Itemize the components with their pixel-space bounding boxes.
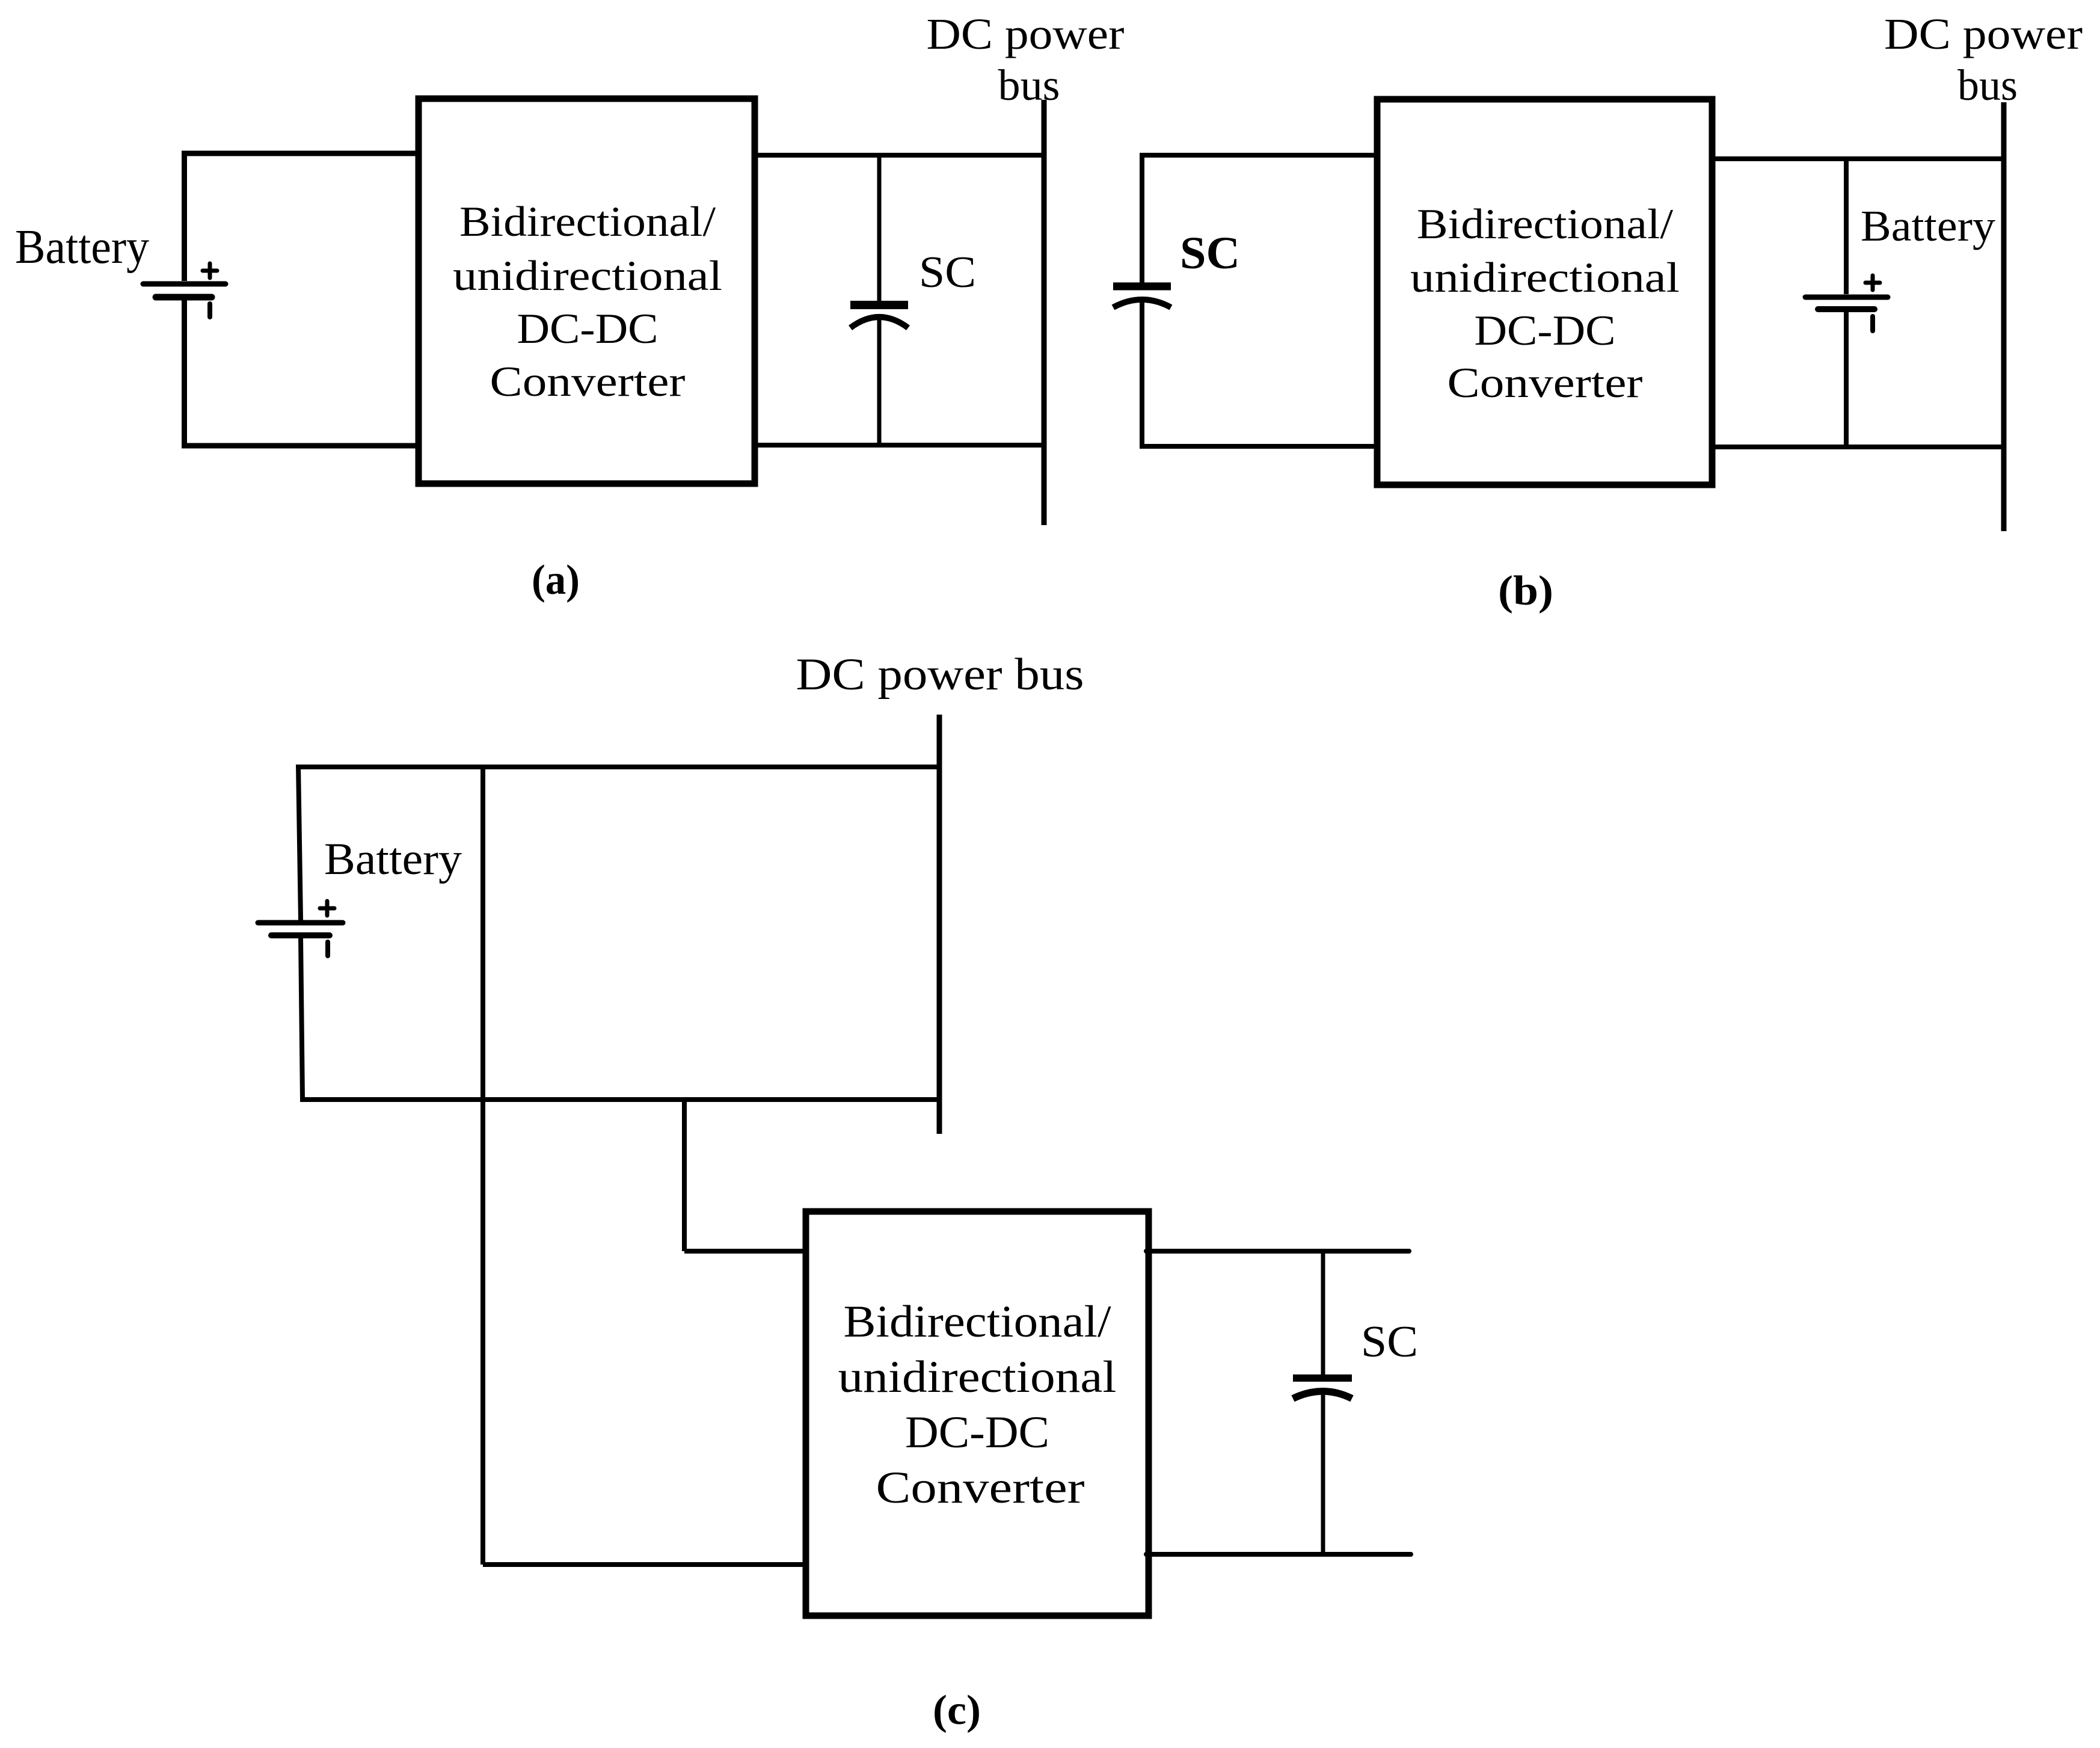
converter block U2: [1377, 99, 1712, 485]
battery B3 top lead: [298, 765, 301, 920]
svg-text:Bidirectional/: Bidirectional/: [459, 198, 716, 245]
battery B1 minus tick: [207, 304, 212, 317]
wire supercapacitor C2 bottom lead and bottom return: [1142, 303, 1378, 446]
svg-text:Bidirectional/: Bidirectional/: [844, 1297, 1111, 1347]
DC power bus line (b): [2001, 102, 2007, 531]
supercapacitor C2 flat plate: [1113, 283, 1171, 291]
svg-text:DC power bus: DC power bus: [796, 650, 1084, 700]
supercapacitor C3 flat plate: [1293, 1374, 1352, 1382]
supercapacitor C3 curved plate: [1293, 1391, 1352, 1399]
supercapacitor C3 top lead: [1321, 1251, 1325, 1375]
svg-text:unidirectional: unidirectional: [1410, 254, 1680, 301]
wire converter U3 output bottom to SC (c): [1146, 1552, 1411, 1557]
converter block U3: [806, 1211, 1149, 1616]
battery B3 short negative plate: [271, 932, 330, 938]
svg-text:bus: bus: [998, 61, 1060, 109]
battery B2 long positive plate: [1805, 295, 1888, 300]
svg-text:Converter: Converter: [490, 359, 686, 405]
svg-text:SC: SC: [919, 248, 976, 297]
svg-text:DC power: DC power: [1884, 10, 2083, 58]
svg-text:Converter: Converter: [1448, 360, 1643, 407]
svg-text:unidirectional: unidirectional: [453, 253, 722, 300]
battery B3 minus tick: [325, 942, 330, 956]
battery B3 long positive plate: [258, 920, 343, 926]
wire battery B1 negative lead and bottom-left return: [185, 297, 422, 446]
supercapacitor C2 curved plate: [1113, 300, 1171, 307]
svg-text:(c): (c): [933, 1687, 981, 1734]
battery B1 short negative plate: [156, 294, 212, 301]
svg-text:DC-DC: DC-DC: [1475, 307, 1616, 354]
battery B2 plus sign: [1865, 275, 1880, 290]
wire battery B3 bottom to DC bus (c): [300, 1097, 939, 1102]
svg-text:(b): (b): [1498, 568, 1553, 614]
converter block U1: [419, 99, 755, 484]
battery B3 bottom lead: [301, 937, 302, 1100]
wire converter U3 input bottom (c): [483, 1562, 808, 1567]
battery B1 plus sign: [203, 263, 217, 278]
svg-text:Bidirectional/: Bidirectional/: [1417, 201, 1673, 248]
DC power bus line (a): [1042, 100, 1047, 525]
svg-text:SC: SC: [1180, 228, 1240, 279]
svg-text:Battery: Battery: [324, 834, 462, 884]
battery B2 bottom lead: [1844, 309, 1849, 447]
battery B3 plus sign: [320, 901, 334, 916]
wire converter U3 input top (c): [684, 1249, 808, 1254]
svg-text:DC-DC: DC-DC: [517, 306, 659, 352]
supercapacitor C1 curved plate: [850, 317, 908, 328]
supercapacitor C1 flat plate: [850, 301, 908, 309]
svg-text:Battery: Battery: [15, 221, 149, 274]
wire converter U3 output top to SC (c): [1146, 1249, 1409, 1254]
svg-text:(a): (a): [532, 557, 580, 603]
supercapacitor C1 bottom lead: [877, 319, 882, 445]
supercapacitor C1 top lead: [877, 155, 882, 301]
svg-text:unidirectional: unidirectional: [838, 1352, 1117, 1402]
battery B2 minus tick: [1870, 316, 1875, 331]
wire stub from bottom wire down (c): [682, 1100, 687, 1251]
wire battery branch vertical to converter (c): [480, 767, 485, 1565]
wire supercapacitor C2 top lead to converter input: [1142, 155, 1378, 283]
svg-text:DC power: DC power: [927, 10, 1125, 58]
wire converter U1 output bottom to DC bus: [754, 443, 1044, 448]
wire converter U1 output top to DC bus: [754, 153, 1044, 158]
svg-text:Battery: Battery: [1861, 202, 1996, 250]
svg-text:Converter: Converter: [876, 1463, 1085, 1513]
wire battery B1 positive lead to converter input (top-left): [185, 153, 422, 281]
supercapacitor C3 bottom lead: [1321, 1394, 1325, 1554]
battery B1 long positive plate: [143, 282, 226, 287]
wire battery B3 top to DC bus (c): [298, 765, 939, 769]
wire converter U2 output bottom to DC bus (b): [1711, 445, 2004, 449]
wire converter U2 output top to DC bus (b): [1711, 156, 2004, 161]
DC power bus line (c): [937, 715, 942, 1134]
battery B2 top lead: [1844, 159, 1849, 294]
svg-text:SC: SC: [1361, 1317, 1418, 1367]
svg-text:bus: bus: [1957, 61, 2018, 109]
svg-text:DC-DC: DC-DC: [905, 1408, 1049, 1457]
battery B2 short negative plate: [1818, 306, 1874, 312]
